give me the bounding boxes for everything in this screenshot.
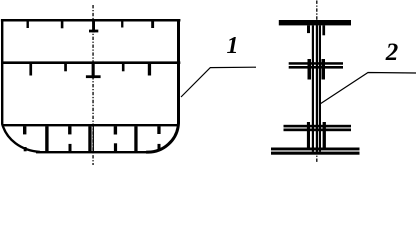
middle deck double plate lower line bbox=[289, 66, 343, 69]
second deck beam tick 4 (long) bbox=[148, 64, 151, 76]
right side shell with bilge curve bbox=[146, 20, 178, 153]
second deck center girder mark stem bbox=[92, 64, 95, 78]
pillar head bracket right bbox=[322, 25, 325, 35]
bracket floor pair 3 upper tick bbox=[114, 126, 117, 134]
inner bottom double plate lower line bbox=[284, 129, 352, 132]
pillar centerline (dash-dot) bbox=[316, 1, 318, 164]
hull centerline solid segment in double bottom bbox=[92, 126, 94, 152]
second deck beam tick 3 (short) bbox=[122, 64, 125, 71]
top deck beam tick 3 bbox=[121, 22, 123, 28]
second deck center girder mark flange bbox=[86, 75, 101, 78]
leader line for label 1 bbox=[181, 67, 256, 97]
left side shell with bilge curve bbox=[2, 20, 40, 152]
bottom shell plating bbox=[36, 151, 147, 153]
bracket floor pair 4 lower tick (on bilge curve) bbox=[158, 144, 161, 149]
double bottom floor left bbox=[45, 126, 48, 152]
bottom connection bracket left bbox=[307, 122, 310, 150]
pillar tube line 3 bbox=[319, 25, 321, 151]
bottom shell double plate upper line bbox=[271, 148, 360, 151]
bottom shell double plate lower line bbox=[271, 152, 360, 155]
top deck beam tick 4 bbox=[151, 22, 154, 29]
second deck beam tick 2 (short) bbox=[64, 64, 67, 71]
bracket floor pair 2 upper tick bbox=[68, 126, 71, 134]
double bottom floor right bbox=[134, 126, 137, 152]
leader line for label 2 bbox=[320, 73, 416, 105]
pillar tube line 1 bbox=[312, 25, 314, 151]
inner bottom double plate upper line bbox=[284, 125, 352, 128]
top deck center girder mark stem bbox=[92, 22, 95, 33]
bracket floor pair 1 lower tick bbox=[24, 147, 27, 151]
bracket floor pair 4 upper tick bbox=[157, 126, 160, 134]
upper deck plating bbox=[1, 19, 181, 22]
pillar head bracket left bbox=[307, 25, 310, 33]
middle connection bracket right bbox=[322, 59, 326, 80]
svg-text:1: 1 bbox=[227, 33, 239, 59]
middle connection bracket left bbox=[308, 59, 312, 80]
top deck beam tick 2 bbox=[61, 22, 64, 29]
bottom connection bracket right bbox=[323, 122, 326, 150]
double bottom center girder bbox=[88, 126, 91, 152]
pillar tube line 2 bbox=[316, 25, 318, 151]
top deck center girder mark flange bbox=[89, 30, 98, 33]
svg-text:2: 2 bbox=[385, 39, 399, 66]
hull centerline (dash-dot) bbox=[92, 5, 94, 165]
second deck beam tick 1 (long) bbox=[29, 64, 32, 76]
inner bottom (tank top) bbox=[2, 124, 179, 126]
middle deck double plate upper line bbox=[289, 62, 343, 64]
pillar detail: upper deck plate bbox=[279, 20, 351, 25]
bracket floor pair 1 upper tick bbox=[23, 126, 26, 134]
bracket floor pair 2 lower tick bbox=[69, 144, 72, 151]
top deck beam tick 1 bbox=[27, 22, 29, 29]
second deck bbox=[1, 61, 180, 64]
bracket floor pair 3 lower tick bbox=[114, 143, 117, 151]
